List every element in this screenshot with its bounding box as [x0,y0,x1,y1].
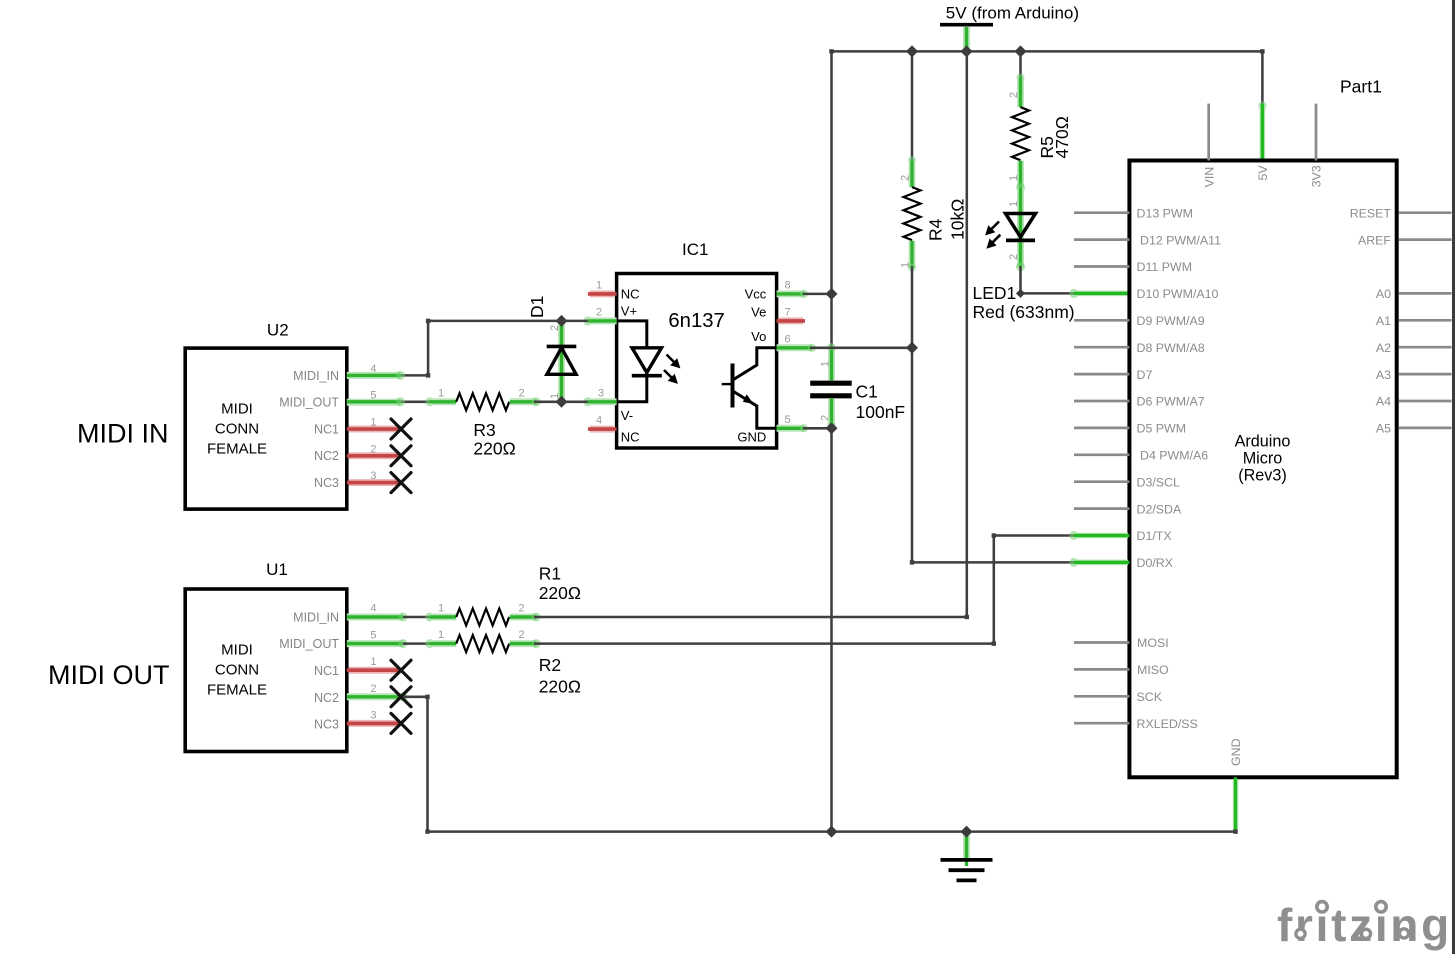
svg-text:D0/RX: D0/RX [1137,556,1174,570]
svg-text:MIDI_OUT: MIDI_OUT [279,396,339,410]
svg-text:C1: C1 [856,381,878,401]
svg-text:1: 1 [596,279,602,291]
svg-text:1: 1 [370,656,376,668]
svg-text:D7: D7 [1137,368,1153,382]
svg-text:3V3: 3V3 [1310,165,1324,187]
pin MOSI [1074,636,1169,650]
svg-text:6: 6 [784,333,790,345]
svg-text:GND: GND [737,430,766,445]
svg-text:6n137: 6n137 [668,310,724,332]
svg-text:FEMALE: FEMALE [207,682,267,699]
svg-text:D4 PWM/A6: D4 PWM/A6 [1140,449,1208,463]
svg-text:D5 PWM: D5 PWM [1137,422,1187,436]
svg-text:470Ω: 470Ω [1052,116,1072,158]
optocoupler IC1 6n137 [596,240,791,448]
wire IC1 Vo to D0/RX [777,344,1130,567]
node junction ground symbol [961,826,973,838]
svg-text:MISO: MISO [1137,663,1169,677]
svg-text:1: 1 [900,262,912,268]
pin A0 [1376,287,1452,301]
svg-text:RXLED/SS: RXLED/SS [1137,717,1198,731]
svg-text:fritzing: fritzing [1277,899,1452,951]
connector U2 MIDI IN [185,320,376,509]
svg-text:A2: A2 [1376,341,1391,355]
wire 5V bus down to Arduino 5V pin [1258,51,1266,160]
svg-text:A1: A1 [1376,314,1391,328]
svg-text:D3/SCL: D3/SCL [1137,475,1180,489]
pin IC1 V- stub [583,397,616,406]
svg-text:D11 PWM: D11 PWM [1137,260,1193,274]
svg-text:(Rev3): (Rev3) [1238,466,1287,484]
svg-text:1: 1 [1008,201,1020,207]
wire R3 to D1 node [534,401,588,404]
svg-text:R1: R1 [539,564,561,584]
pin A5 [1376,422,1452,436]
svg-text:RESET: RESET [1350,206,1392,220]
pin D5 PWM [1074,422,1186,436]
svg-text:MIDI: MIDI [221,641,253,658]
wire R2 to D1/TX [534,531,1129,646]
pin D6 PWM/A7 [1074,395,1205,409]
svg-text:2: 2 [518,603,524,615]
connector U1 MIDI OUT [185,560,376,751]
wire IC1 GND pin5 to rail [777,424,832,432]
pin VIN [1202,104,1216,188]
svg-text:MIDI: MIDI [221,401,253,418]
svg-text:Ve: Ve [751,305,766,320]
power symbol 5V (from Arduino) [940,4,1079,25]
svg-text:D9 PWM/A9: D9 PWM/A9 [1137,314,1205,328]
svg-text:220Ω: 220Ω [539,677,581,697]
svg-text:3: 3 [598,387,604,399]
pin U2 MIDI_IN stub [347,371,405,380]
wire IC1 Vcc to 5V rail [777,290,832,298]
svg-text:NC3: NC3 [314,718,339,732]
svg-text:CONN: CONN [215,421,259,438]
pin IC1 NC1 red stub [588,290,617,297]
node junction bus/R5 [1015,45,1027,57]
svg-text:Vo: Vo [751,329,766,344]
pin RESET [1350,206,1452,220]
svg-text:Micro: Micro [1243,449,1283,467]
svg-text:4: 4 [596,415,602,427]
svg-text:GND: GND [1229,738,1243,766]
node junction bus/5V [961,45,973,57]
svg-text:2: 2 [518,629,524,641]
right edge border [1452,0,1455,954]
pin D11 PWM [1074,260,1192,274]
label MIDI IN [77,418,169,448]
svg-text:A4: A4 [1376,395,1391,409]
wire U1 NC2 to ground bus [403,695,430,834]
svg-text:D1/TX: D1/TX [1137,529,1172,543]
svg-text:MIDI_IN: MIDI_IN [293,610,339,624]
svg-text:MIDI_OUT: MIDI_OUT [279,637,339,651]
svg-text:100nF: 100nF [856,402,906,422]
svg-text:R4: R4 [926,218,946,241]
svg-text:NC: NC [621,430,640,445]
pin U2 NC1 stub [347,419,411,439]
svg-text:NC: NC [621,287,640,302]
svg-text:4: 4 [370,603,376,615]
wire ground bus [428,830,1236,833]
node junction D1/R3 [556,396,568,408]
svg-text:R2: R2 [539,655,561,675]
wire LED1 to D10 pin [1016,266,1129,298]
pin A1 [1376,314,1452,328]
pin U1 NC2 stub wired to ground [347,687,411,707]
svg-text:D12 PWM/A11: D12 PWM/A11 [1140,233,1221,247]
svg-text:VIN: VIN [1202,167,1216,188]
ground symbol [941,832,993,881]
node junction R4/Vo [906,342,918,354]
resistor R3 [425,387,540,458]
label MIDI OUT [48,660,170,690]
pin D9 PWM/A9 [1074,314,1205,328]
pin D7 [1074,368,1152,382]
wire MIDI_IN to V+ [400,319,588,378]
svg-text:CONN: CONN [215,662,259,679]
pin U1 MIDI_IN stub [347,613,408,622]
pin D0/RX label [1137,556,1174,570]
svg-text:220Ω: 220Ω [539,583,581,603]
pin IC1 V+ stub [583,316,616,325]
svg-text:1: 1 [549,393,561,399]
svg-text:D6 PWM/A7: D6 PWM/A7 [1137,395,1205,409]
svg-text:AREF: AREF [1358,233,1391,247]
svg-text:R3: R3 [473,420,495,440]
wire 5V symbol to bus [963,27,970,51]
wire C1 bottom to ground bus [828,398,836,831]
svg-text:5: 5 [370,629,376,641]
node junction Vcc/C1 [826,288,838,300]
svg-text:LED1: LED1 [973,283,1017,303]
svg-text:MIDI IN: MIDI IN [77,418,169,448]
pin A2 [1376,341,1452,355]
svg-text:A5: A5 [1376,422,1391,436]
pin SCK [1074,690,1163,704]
svg-text:5V: 5V [1256,165,1270,181]
pin U1 NC3 stub [347,713,411,733]
wire 5V top bus [829,49,1264,53]
svg-text:U1: U1 [266,560,288,579]
wire Arduino GND to ground bus [1233,777,1237,834]
svg-text:SCK: SCK [1137,690,1163,704]
svg-text:5: 5 [784,414,790,426]
capacitor C1 [810,361,905,422]
node junction pin5/C1 [826,422,838,434]
svg-text:MIDI_IN: MIDI_IN [293,369,339,383]
svg-text:D1: D1 [527,296,547,318]
svg-text:MOSI: MOSI [1137,636,1169,650]
wire MIDI_OUT to R3 segment [400,401,432,404]
pin U1 NC1 stub [347,660,411,680]
svg-text:1: 1 [438,387,444,399]
svg-text:1: 1 [1008,175,1020,181]
svg-text:2: 2 [549,325,561,331]
fritzing watermark [1277,898,1452,951]
pin D3/SCL [1074,475,1180,489]
svg-text:D10 PWM/A10: D10 PWM/A10 [1137,287,1219,301]
svg-text:U2: U2 [267,320,289,339]
svg-text:2: 2 [1008,254,1020,260]
svg-text:IC1: IC1 [682,240,708,259]
svg-text:MIDI OUT: MIDI OUT [48,660,170,690]
svg-text:2: 2 [1008,92,1020,98]
pin A3 [1376,368,1452,382]
wire 5V rail down to IC Vcc / C1 [828,51,836,380]
pin U2 NC3 stub [347,473,411,493]
node junction D1/V+ [556,315,568,327]
svg-text:1: 1 [820,361,832,367]
node junction C1 rail/ground bus [826,826,838,838]
pin IC1 NC4 red stub [588,426,617,433]
svg-text:5V (from Arduino): 5V (from Arduino) [946,4,1079,23]
svg-text:D8 PWM/A8: D8 PWM/A8 [1137,341,1205,355]
svg-text:FEMALE: FEMALE [207,441,267,458]
pin U2 NC2 stub [347,446,411,466]
svg-text:D2/SDA: D2/SDA [1137,502,1182,516]
svg-text:NC1: NC1 [314,664,339,678]
svg-text:Arduino: Arduino [1235,432,1291,450]
pin MISO [1074,663,1169,677]
LED LED1 [973,183,1075,322]
svg-text:1: 1 [438,629,444,641]
svg-text:2: 2 [518,387,524,399]
wire R1 to 5V bus [534,51,969,619]
svg-text:D13 PWM: D13 PWM [1137,206,1193,220]
pin GND label [1229,738,1243,766]
svg-text:V+: V+ [621,304,637,319]
pin D12 PWM/A11 [1074,233,1221,247]
svg-text:A0: A0 [1376,287,1391,301]
pin AREF [1358,233,1452,247]
svg-text:NC2: NC2 [314,449,339,463]
resistor R1 [403,564,581,626]
svg-text:10kΩ: 10kΩ [948,199,968,240]
node junction bus/R4 [906,45,918,57]
pin D8 PWM/A8 [1074,341,1205,355]
resistor R5 [1008,51,1072,187]
svg-text:2: 2 [596,306,602,318]
pin 3V3 [1310,104,1324,188]
pin U1 MIDI_OUT stub [347,639,408,648]
svg-text:1: 1 [438,603,444,615]
pin IC1 Ve red stub [777,317,805,324]
svg-text:8: 8 [784,279,790,291]
diode D1 [527,296,576,402]
svg-text:NC1: NC1 [314,422,339,436]
pin D1/TX label [1137,529,1172,543]
svg-text:Red (633nm): Red (633nm) [973,302,1075,322]
pin U2 MIDI_OUT stub [347,397,405,406]
svg-text:NC3: NC3 [314,476,339,490]
svg-text:2: 2 [900,175,912,181]
pin D10 PWM/A10 label [1137,287,1219,301]
pin D2/SDA [1074,502,1182,516]
Arduino Micro Part1 [1129,77,1396,778]
pin A4 [1376,395,1452,409]
svg-text:2: 2 [370,683,376,695]
pin 5V label [1256,165,1270,181]
svg-text:220Ω: 220Ω [473,438,515,458]
svg-text:V-: V- [621,408,633,423]
pin D4 PWM/A6 [1074,449,1208,463]
svg-text:Part1: Part1 [1340,77,1382,97]
svg-text:Vcc: Vcc [745,287,767,302]
pin RXLED/SS [1074,717,1198,731]
svg-text:A3: A3 [1376,368,1391,382]
pin D13 PWM [1074,206,1193,220]
svg-text:NC2: NC2 [314,691,339,705]
resistor R2 [403,629,581,696]
resistor R4 [900,51,968,347]
svg-text:7: 7 [784,306,790,318]
